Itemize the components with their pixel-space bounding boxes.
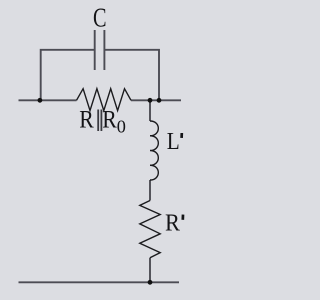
wire: capacitor loop left vertical + top-left bbox=[41, 50, 94, 101]
label R' prime tick bbox=[181, 215, 184, 220]
svg-text:L: L bbox=[167, 128, 180, 155]
wire: main horizontal rail right of R bbox=[131, 99, 181, 101]
node dot inductor junction bbox=[148, 98, 153, 103]
resistor R||R0 zigzag bbox=[77, 89, 132, 111]
wire: main horizontal rail left of R bbox=[19, 99, 77, 101]
wire: inductor top stub bbox=[149, 100, 151, 121]
svg-text:R: R bbox=[165, 209, 180, 236]
svg-text:0: 0 bbox=[117, 117, 126, 137]
node dot capacitor-branch junction bbox=[157, 98, 162, 103]
wire: resistor R' bottom stub bbox=[149, 258, 151, 283]
wire: capacitor loop top-right + right vertical bbox=[105, 50, 159, 101]
label L' bbox=[167, 128, 180, 155]
inductor L' coil bbox=[150, 121, 158, 180]
svg-text:R: R bbox=[79, 106, 94, 134]
capacitor C plates bbox=[95, 30, 105, 70]
node dot bottom junction bbox=[148, 280, 153, 285]
resistor R' zigzag bbox=[140, 201, 160, 258]
wire: bottom horizontal rail bbox=[19, 281, 180, 283]
label R||R0 bbox=[79, 106, 126, 136]
svg-text:R: R bbox=[102, 106, 117, 134]
label L' prime tick bbox=[180, 133, 183, 138]
svg-text:C: C bbox=[93, 2, 107, 33]
node dot left junction bbox=[38, 98, 43, 103]
wire: inductor-to-resistor stub bbox=[149, 180, 151, 201]
label R' bbox=[165, 209, 180, 236]
label C bbox=[93, 2, 107, 33]
